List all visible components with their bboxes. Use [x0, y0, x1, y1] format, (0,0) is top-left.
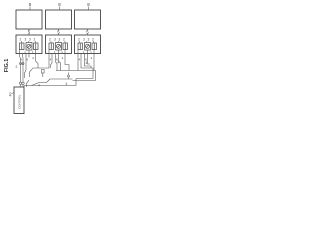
svg-text:4: 4: [62, 56, 64, 60]
svg-text:4: 4: [79, 58, 81, 62]
svg-text:4: 4: [66, 82, 68, 86]
svg-text:FIG.1: FIG.1: [4, 59, 10, 72]
svg-text:3: 3: [54, 38, 56, 42]
svg-text:CONTROL: CONTROL: [18, 94, 22, 109]
svg-text:4: 4: [38, 84, 40, 88]
svg-text:2: 2: [63, 38, 65, 42]
svg-text:40: 40: [8, 93, 12, 97]
svg-text:2: 2: [16, 65, 18, 69]
svg-text:3: 3: [83, 38, 85, 42]
svg-text:2: 2: [49, 38, 51, 42]
svg-text:4: 4: [91, 56, 93, 60]
svg-text:2: 2: [20, 38, 22, 42]
svg-text:4: 4: [86, 61, 88, 65]
svg-text:4: 4: [58, 61, 60, 65]
svg-text:3: 3: [59, 38, 61, 42]
svg-text:2: 2: [34, 38, 36, 42]
svg-text:3: 3: [88, 38, 90, 42]
svg-text:6: 6: [27, 58, 29, 62]
svg-text:3: 3: [25, 38, 27, 42]
svg-text:4: 4: [32, 56, 34, 60]
svg-text:4: 4: [50, 58, 52, 62]
svg-text:3: 3: [29, 38, 31, 42]
